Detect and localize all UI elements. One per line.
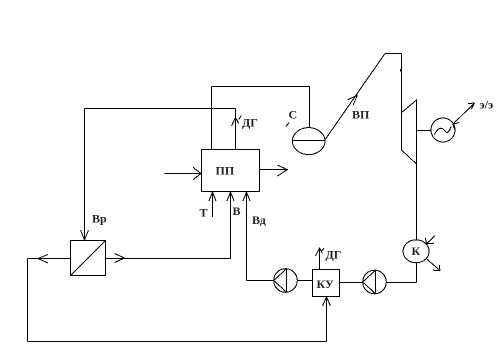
left pump circle <box>274 269 298 293</box>
arrowhead at э/э end <box>468 102 475 105</box>
wire: air riser В <box>230 192 232 259</box>
svg-text:Вд: Вд <box>252 213 266 227</box>
arrow: В into ПП <box>227 192 234 201</box>
wire: flue gas riser from КУ <box>319 248 321 270</box>
svg-text:В: В <box>233 204 241 218</box>
svg-text:э/э: э/э <box>480 98 494 112</box>
arrowhead at generator end <box>453 123 459 125</box>
wire: turbine admission drop <box>401 54 403 151</box>
wire: riser into КУ bottom <box>326 297 328 342</box>
arrow: air flow left <box>38 255 48 264</box>
wire: flue gas riser from ПП <box>235 109 237 150</box>
arrow: air flow right <box>115 254 125 263</box>
arrow: cooling water into К <box>427 235 435 244</box>
arrow: down into Вр <box>81 230 89 240</box>
svg-text:Вр: Вр <box>92 212 107 226</box>
condenser К (ellipse) <box>403 240 429 263</box>
air heater box Вр <box>71 241 106 276</box>
arrow: Вд into ПП <box>243 192 250 201</box>
tick near С label <box>286 123 289 127</box>
svg-text:Т: Т <box>200 206 208 220</box>
wire: generator shaft link <box>417 130 432 132</box>
arrow: cooling water out of К <box>426 259 440 271</box>
generator sine wave <box>434 127 451 135</box>
svg-text:КУ: КУ <box>317 277 334 291</box>
tick near ДГ (КУ) label <box>322 248 324 251</box>
arrow: ВП flow up-right <box>348 95 358 100</box>
svg-text:К: К <box>412 244 421 258</box>
wire: top corner horizontal <box>385 53 402 55</box>
junction dot on admission line <box>400 69 402 72</box>
wire: ПП top riser to steam header <box>211 87 213 150</box>
wire: feed water riser Вд <box>246 192 248 281</box>
tick near ДГ label <box>239 116 242 120</box>
wire: КУ to left pump <box>297 280 312 282</box>
svg-text:ПП: ПП <box>216 164 235 178</box>
wire: bottom return line <box>28 341 327 343</box>
heater box КУ <box>313 270 340 297</box>
wire: top horizontal to drum <box>212 86 310 88</box>
wire: turbine exhaust down to condenser <box>416 100 418 240</box>
right pump triangle <box>363 270 376 293</box>
svg-text:С: С <box>289 108 298 122</box>
drum С (ellipse) <box>292 128 325 155</box>
arrow: Т into ПП <box>209 192 216 201</box>
wire: steam line drum to turbine (diagonal) <box>325 54 385 140</box>
boiler box ПП <box>202 150 260 192</box>
wire: fuel riser Т <box>212 192 214 217</box>
wire: flue gas horizontal duct <box>85 108 236 110</box>
wire: electrical output arrow line <box>453 103 475 124</box>
wire: left down leg <box>27 259 29 342</box>
generator circle <box>431 118 455 142</box>
svg-text:ДГ: ДГ <box>242 116 258 130</box>
svg-text:ВП: ВП <box>352 108 370 122</box>
wire: condensate drop from К <box>416 263 418 283</box>
turbine (trapezoid) <box>402 100 417 164</box>
svg-text:ДГ: ДГ <box>326 248 342 262</box>
arrow: into ПП left <box>193 167 201 179</box>
wire: hot air from Вр to В riser <box>106 258 231 260</box>
wire: К to right pump <box>386 282 416 284</box>
arrow: flue gas up <box>232 118 239 127</box>
wire: drop into drum С <box>309 87 311 129</box>
wire: ПП right steam output <box>260 169 288 171</box>
wire: air into Вр from left <box>28 258 71 260</box>
wire: flue gas drop to air heater Вр <box>84 109 86 241</box>
arrow: up into КУ <box>323 297 331 306</box>
right pump circle <box>363 270 387 294</box>
wire: right pump to КУ <box>340 282 363 284</box>
wire: left pump to feed riser <box>247 280 274 282</box>
left pump triangle <box>274 269 287 292</box>
wire: ПП left feed input <box>165 173 202 175</box>
arrow: flue gas up from КУ <box>316 248 323 256</box>
arrow: out of ПП right <box>278 165 288 176</box>
chord through drum <box>293 140 326 142</box>
diagonal of Вр box <box>71 241 106 276</box>
